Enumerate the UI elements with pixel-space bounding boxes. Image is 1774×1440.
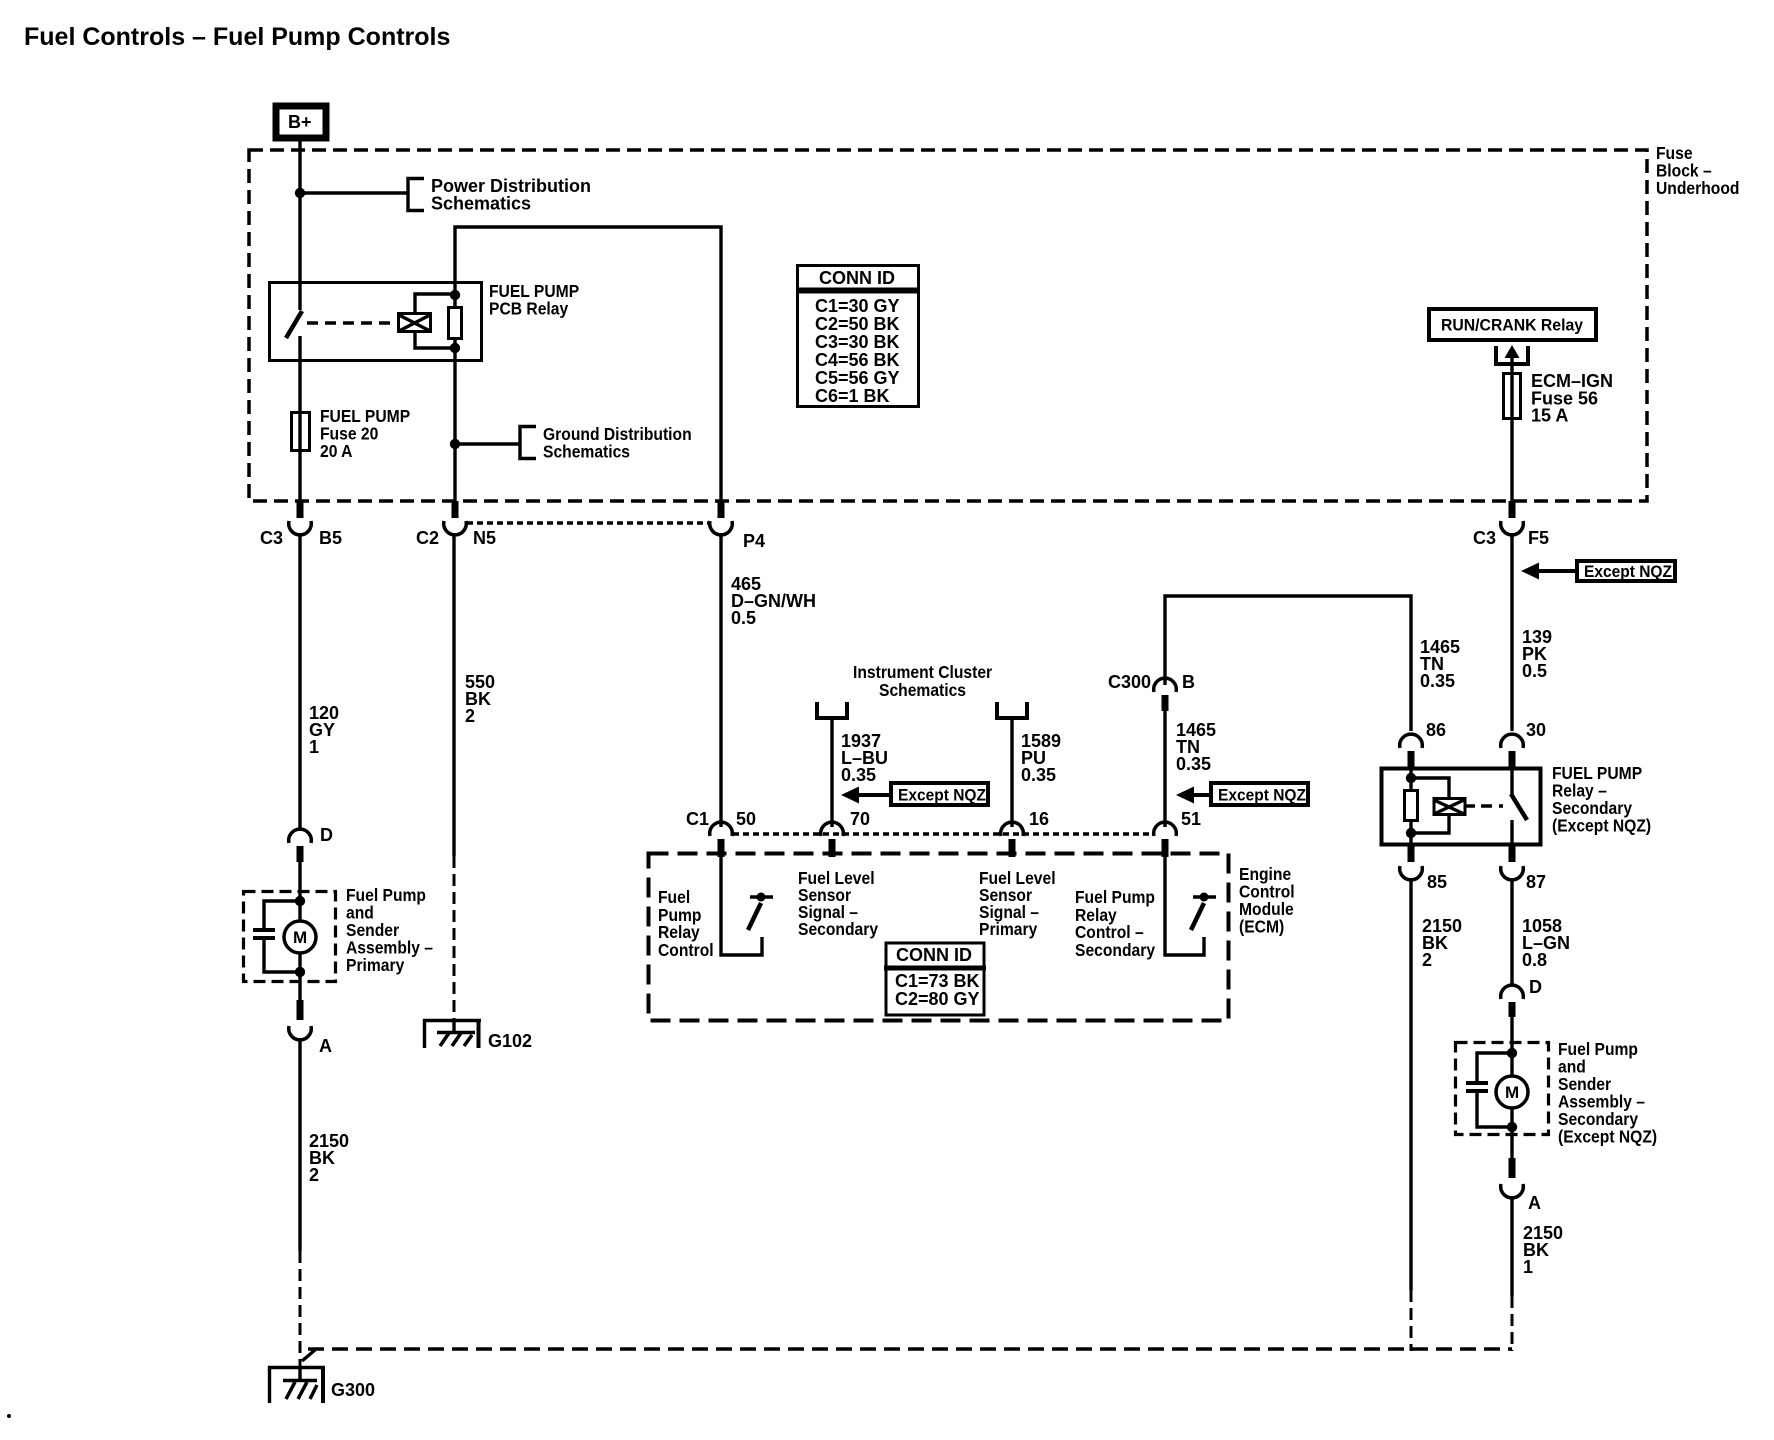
- connector pin 86: [1400, 720, 1446, 767]
- connector pin 87: [1501, 845, 1546, 892]
- node dots secondary pump: [1507, 1048, 1517, 1058]
- connector A (secondary pump): [1501, 1158, 1541, 1213]
- wire pin 86 through resistor: [1409, 767, 1412, 791]
- wire label 1465 TN 0.35 lower: [1176, 720, 1216, 774]
- fuel level sensor signal primary label: [979, 868, 1056, 939]
- svg-text:G300: G300: [331, 1380, 375, 1400]
- wire label 550 BK 2: [465, 672, 495, 726]
- svg-text:0.5: 0.5: [731, 608, 756, 628]
- wire A down solid: [298, 1038, 301, 1251]
- svg-text:C6=1 BK: C6=1 BK: [815, 386, 890, 406]
- wire label 1465 TN 0.35 upper: [1420, 637, 1460, 691]
- ground G300: [268, 1366, 375, 1403]
- fuel pump and sender assembly primary dashed box: [244, 892, 336, 982]
- svg-text:2: 2: [1422, 950, 1432, 970]
- wire to power distribution tap: [300, 191, 407, 194]
- wire A dashed to G300: [299, 1251, 302, 1366]
- connector pin 85: [1400, 845, 1447, 892]
- svg-text:C3=30 BK: C3=30 BK: [815, 332, 900, 352]
- wire label 1589 PU 0.35: [1021, 731, 1061, 785]
- svg-text:0.35: 0.35: [1176, 754, 1211, 774]
- svg-text:D: D: [320, 825, 333, 845]
- svg-text:87: 87: [1526, 872, 1546, 892]
- wire label 2150 BK 2 right: [1422, 916, 1462, 970]
- svg-text:RUN/CRANK Relay: RUN/CRANK Relay: [1441, 316, 1584, 335]
- B+ battery terminal: [276, 106, 326, 138]
- Except NQZ callout near pin 51: [1176, 783, 1308, 805]
- connector pin 70: [821, 809, 870, 857]
- svg-text:15 A: 15 A: [1531, 406, 1568, 426]
- wire run/crank to fuse 56: [1510, 355, 1513, 376]
- svg-text:Schematics: Schematics: [431, 194, 531, 214]
- connector C1 pin 50: [686, 809, 756, 857]
- connector C3 pin F5: [1473, 501, 1549, 548]
- wire D to pump box: [298, 862, 301, 922]
- relay K3 dashed actuating link: [1466, 804, 1475, 808]
- svg-text:0.8: 0.8: [1522, 950, 1547, 970]
- wire label 139 PK 0.5: [1522, 627, 1552, 681]
- connector pin 51: [1154, 809, 1201, 857]
- wire C300 up and over to pin 86: [1165, 596, 1411, 731]
- relay dashed actuating link: [307, 321, 396, 325]
- connector pin 16: [1001, 809, 1049, 857]
- ECM driver 2 wire: [1165, 857, 1204, 955]
- svg-text:G102: G102: [488, 1031, 532, 1051]
- wire label 1937 L-BU 0.35: [841, 731, 888, 785]
- fuse F2: ECM-IGN Fuse 56: [1504, 374, 1521, 419]
- motor M primary: [284, 921, 316, 953]
- svg-text:Primary: Primary: [346, 955, 405, 975]
- wire label 2150 BK 2 left: [309, 1131, 349, 1185]
- fuel pump relay control secondary label: [1075, 887, 1156, 960]
- capacitor branch primary: [264, 901, 300, 928]
- relay K3 coil (box with X): [1434, 799, 1465, 815]
- svg-text:M: M: [293, 928, 307, 947]
- dotted line across ECM connector row: [733, 832, 1154, 836]
- relay coil loop wires: [415, 294, 455, 313]
- wire clip to pin 70: [830, 718, 833, 827]
- ground distribution bracket: [520, 427, 536, 459]
- svg-text:(ECM): (ECM): [1239, 916, 1284, 936]
- svg-text:2: 2: [465, 706, 475, 726]
- svg-text:B5: B5: [319, 528, 342, 548]
- run/crank relay clip bracket: [1496, 346, 1528, 364]
- ECM label: [1239, 864, 1295, 937]
- connector pin 30: [1501, 720, 1546, 767]
- motor M secondary: [1496, 1076, 1528, 1108]
- connector C300 pin B: [1108, 672, 1195, 711]
- instrument cluster clip right: [997, 702, 1027, 718]
- wire label 1058 L-GN 0.8: [1522, 916, 1570, 970]
- relay K3 resistor: [1405, 791, 1418, 821]
- svg-text:20 A: 20 A: [320, 441, 352, 461]
- wire B5 down to connector D: [298, 533, 301, 830]
- wire N5 down solid part: [452, 533, 455, 856]
- svg-text:0.35: 0.35: [841, 765, 876, 785]
- relay switch lower contact wire to fuse: [298, 336, 301, 414]
- ECM driver 1 wire: [721, 857, 762, 955]
- svg-text:Fuel Controls – Fuel Pump Cont: Fuel Controls – Fuel Pump Controls: [24, 23, 450, 51]
- svg-text:C3: C3: [1473, 528, 1496, 548]
- svg-text:C300: C300: [1108, 672, 1151, 692]
- svg-text:D: D: [1529, 977, 1542, 997]
- instrument cluster clip left: [817, 702, 847, 718]
- relay K3 switch: [1511, 767, 1527, 845]
- wire P4 down to ECM pin 50: [719, 533, 722, 827]
- svg-text:B: B: [1182, 672, 1195, 692]
- wire pin 87 down to D: [1510, 878, 1513, 986]
- connector C3 pin B5: [260, 501, 342, 548]
- svg-text:Except NQZ: Except NQZ: [1218, 786, 1306, 805]
- wire A down solid right: [1510, 1196, 1513, 1296]
- svg-text:51: 51: [1181, 809, 1201, 829]
- power distribution bracket: [408, 179, 424, 211]
- svg-text:C2=80 GY: C2=80 GY: [895, 989, 980, 1009]
- node junction on B+ wire: [295, 188, 305, 198]
- fuel pump relay control label: [658, 887, 714, 960]
- fuse F1: FUEL PUMP Fuse 20: [292, 413, 310, 451]
- svg-text:(Except NQZ): (Except NQZ): [1552, 815, 1651, 835]
- Except NQZ callout near F5: [1521, 561, 1675, 581]
- svg-text:B+: B+: [288, 112, 312, 132]
- svg-text:Schematics: Schematics: [879, 680, 966, 700]
- relay U1: FUEL PUMP PCB Relay box: [270, 283, 482, 361]
- Except NQZ callout near pin 70: [841, 783, 988, 805]
- svg-text:C2=50 BK: C2=50 BK: [815, 314, 900, 334]
- arrow up to run/crank relay: [1505, 345, 1520, 358]
- relay K3 coil loop: [1411, 778, 1449, 798]
- svg-text:F5: F5: [1528, 528, 1549, 548]
- svg-text:Except NQZ: Except NQZ: [898, 786, 986, 805]
- relay K3: FUEL PUMP Relay Secondary box: [1382, 769, 1541, 845]
- svg-text:C1: C1: [686, 809, 709, 829]
- node dots on resistor branch: [450, 290, 460, 300]
- elbow into G300: [302, 1350, 315, 1361]
- wire label 465 D-GN/WH 0.5: [731, 574, 816, 628]
- wire A dashed to ground run: [1511, 1296, 1514, 1351]
- svg-text:C1=30 GY: C1=30 GY: [815, 296, 900, 316]
- dotted line N5 to P4: [467, 521, 709, 525]
- wire pin 85 down solid: [1409, 878, 1412, 1290]
- svg-text:50: 50: [736, 809, 756, 829]
- svg-text:0.5: 0.5: [1522, 661, 1547, 681]
- wire B+ down to relay switch: [298, 141, 301, 310]
- wire label 2150 BK 1: [1523, 1223, 1563, 1277]
- ECM driver 2 switch: [1191, 893, 1216, 931]
- svg-text:CONN ID: CONN ID: [819, 268, 895, 288]
- svg-text:A: A: [319, 1036, 332, 1056]
- svg-text:C4=56 BK: C4=56 BK: [815, 350, 900, 370]
- fuse block label: [1656, 143, 1739, 198]
- instrument cluster schematics label: [853, 662, 993, 700]
- svg-text:Except NQZ: Except NQZ: [1584, 562, 1672, 581]
- svg-text:0.35: 0.35: [1021, 765, 1056, 785]
- bottom dashed ground wire: [308, 1347, 1512, 1351]
- wire through motor: [298, 953, 301, 1000]
- connector D (primary pump): [289, 825, 333, 862]
- node junction ground distribution: [450, 439, 460, 449]
- svg-text:C3: C3: [260, 528, 283, 548]
- wire C300 down to pin 51: [1163, 711, 1166, 827]
- svg-text:1: 1: [309, 737, 319, 757]
- svg-text:85: 85: [1427, 872, 1447, 892]
- ground G102: [423, 1019, 532, 1051]
- relay coil (box with X): [399, 314, 431, 332]
- wire F5 down to pin 30: [1510, 533, 1513, 731]
- svg-text:PCB Relay: PCB Relay: [489, 298, 569, 318]
- svg-text:30: 30: [1526, 720, 1546, 740]
- connector pin P4: [710, 501, 765, 551]
- svg-text:Secondary: Secondary: [798, 919, 879, 939]
- svg-text:Control: Control: [658, 940, 714, 960]
- svg-text:C5=56 GY: C5=56 GY: [815, 368, 900, 388]
- fuse block underhood dashed box: [249, 150, 1647, 501]
- svg-text:16: 16: [1029, 809, 1049, 829]
- svg-text:86: 86: [1426, 720, 1446, 740]
- wire D to secondary pump box: [1510, 1017, 1513, 1076]
- svg-text:2: 2: [309, 1165, 319, 1185]
- capacitor branch secondary: [1477, 1053, 1512, 1081]
- fuel pump and sender assembly secondary dashed box: [1456, 1043, 1549, 1135]
- svg-text:A: A: [1528, 1193, 1541, 1213]
- relay K2: RUN/CRANK Relay label box: [1429, 309, 1596, 340]
- page corner dot: [7, 1414, 11, 1418]
- svg-text:C2: C2: [416, 528, 439, 548]
- wire clip to pin 16: [1010, 718, 1013, 827]
- CONN ID table underhood: [796, 266, 920, 407]
- wire through secondary motor: [1510, 1108, 1513, 1158]
- svg-text:C1=73 BK: C1=73 BK: [895, 971, 980, 991]
- connector D (secondary pump): [1501, 977, 1542, 1017]
- ECM dashed box: [649, 854, 1229, 1021]
- svg-text:0.35: 0.35: [1420, 671, 1455, 691]
- svg-text:1: 1: [1523, 1257, 1533, 1277]
- svg-text:Underhood: Underhood: [1656, 178, 1739, 198]
- top wire from relay to P4: [455, 227, 721, 502]
- wire pin 85 dashed to ground run: [1410, 1290, 1413, 1351]
- relay switch arm: [286, 311, 302, 338]
- svg-text:Secondary: Secondary: [1075, 940, 1156, 960]
- svg-text:Schematics: Schematics: [543, 441, 630, 461]
- svg-text:P4: P4: [743, 531, 765, 551]
- svg-text:(Except NQZ): (Except NQZ): [1558, 1126, 1657, 1146]
- wire N5 dashed part to G102: [453, 856, 456, 1021]
- CONN ID table ECM: [884, 943, 986, 1015]
- relay K3 coil branch node dots: [1406, 773, 1416, 783]
- svg-text:70: 70: [850, 809, 870, 829]
- ECM driver 1 switch: [748, 893, 773, 931]
- wire resistor vertical: [453, 281, 456, 308]
- connector C2 pin N5: [416, 501, 496, 548]
- node dots primary pump: [295, 896, 305, 906]
- svg-text:CONN ID: CONN ID: [896, 945, 972, 965]
- svg-text:M: M: [1505, 1083, 1519, 1102]
- svg-text:Primary: Primary: [979, 919, 1038, 939]
- connector A (primary pump): [289, 1000, 332, 1056]
- fuel level sensor signal secondary label: [798, 868, 879, 939]
- svg-text:N5: N5: [473, 528, 496, 548]
- wire label 120 GY 1: [309, 703, 339, 757]
- resistor in PCB relay: [449, 308, 462, 339]
- wire to ground distribution tap: [455, 442, 519, 445]
